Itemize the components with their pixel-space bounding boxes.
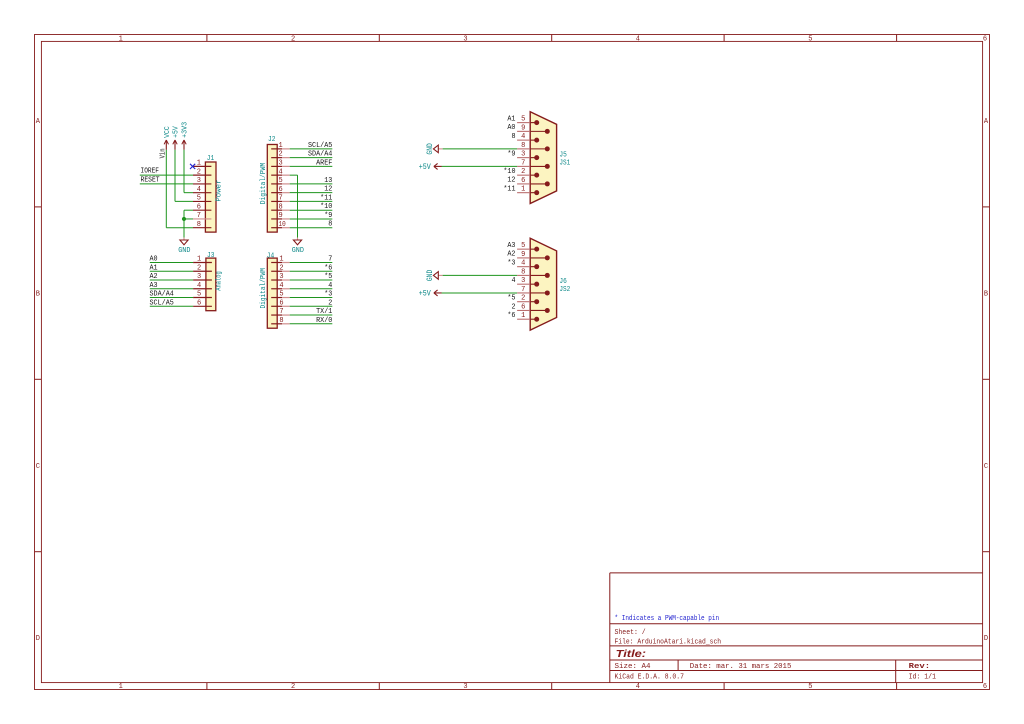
svg-text:RESET: RESET — [141, 176, 160, 184]
junction on J1 pin 7 net — [182, 217, 186, 221]
ground symbol GND below J2 — [292, 238, 304, 255]
svg-text:J1: J1 — [207, 155, 215, 163]
svg-text:1: 1 — [521, 312, 525, 320]
svg-text:Digital/PWM: Digital/PWM — [260, 268, 268, 309]
svg-text:KiCad E.D.A. 8.0.7: KiCad E.D.A. 8.0.7 — [615, 673, 685, 681]
svg-text:GND: GND — [292, 247, 304, 255]
svg-text:Digital/PWM: Digital/PWM — [260, 163, 268, 205]
svg-text:5: 5 — [197, 195, 201, 203]
svg-text:GND: GND — [425, 143, 435, 154]
power symbol +3V3 — [182, 122, 190, 150]
svg-text:4: 4 — [636, 35, 640, 43]
no-connect X on J1 pin 1 — [190, 164, 195, 169]
svg-text:4: 4 — [279, 282, 283, 290]
wire J2 pin 9 — [290, 218, 333, 220]
svg-text:7: 7 — [279, 308, 283, 316]
svg-text:Date: mar. 31 mars 2015: Date: mar. 31 mars 2015 — [690, 663, 792, 671]
svg-text:C: C — [36, 463, 40, 471]
svg-text:1: 1 — [197, 256, 201, 264]
svg-text:6: 6 — [521, 303, 525, 311]
wire VCC/Vin to J1 pin 8 — [166, 150, 193, 228]
svg-text:12: 12 — [507, 177, 515, 185]
wire J4 pin 2 — [290, 270, 333, 272]
svg-text:5: 5 — [197, 291, 201, 299]
svg-text:J3: J3 — [207, 252, 215, 260]
svg-text:*9: *9 — [507, 150, 515, 158]
svg-text:D: D — [984, 635, 988, 643]
svg-text:8: 8 — [279, 317, 283, 325]
svg-text:6: 6 — [983, 683, 987, 691]
svg-text:2: 2 — [279, 264, 283, 272]
svg-text:3: 3 — [521, 277, 525, 285]
svg-text:1: 1 — [119, 683, 123, 691]
svg-text:4: 4 — [521, 260, 525, 268]
J6 pin numbers — [521, 242, 525, 320]
svg-text:1: 1 — [279, 142, 283, 150]
connector J2 — [267, 144, 289, 232]
svg-text:A1: A1 — [507, 115, 515, 123]
wire IOREF to J1 pin 2 — [140, 174, 193, 176]
wire J2 pin 6 — [290, 192, 333, 194]
svg-text:10: 10 — [279, 221, 286, 229]
svg-text:*3: *3 — [324, 291, 332, 299]
svg-text:8: 8 — [279, 203, 283, 211]
svg-text:*6: *6 — [324, 264, 332, 272]
svg-text:3: 3 — [279, 160, 283, 168]
svg-text:6: 6 — [983, 35, 987, 43]
wire J1 pin 6 to GND node — [184, 210, 193, 219]
svg-text:2: 2 — [328, 299, 332, 307]
J4 pin numbers — [279, 256, 283, 325]
svg-text:5: 5 — [279, 291, 283, 299]
svg-text:9: 9 — [279, 212, 283, 220]
svg-text:3: 3 — [279, 273, 283, 281]
svg-text:8: 8 — [521, 268, 525, 276]
svg-text:B: B — [36, 291, 40, 299]
J3 pin numbers — [197, 256, 201, 308]
wire GND to J6 — [443, 274, 517, 276]
svg-text:J4: J4 — [267, 253, 275, 261]
connector J1 — [193, 162, 216, 232]
svg-text:5: 5 — [521, 116, 525, 124]
svg-text:1: 1 — [119, 35, 123, 43]
svg-text:12: 12 — [324, 186, 332, 194]
svg-text:+3V3: +3V3 — [182, 122, 190, 138]
wire J2 pin 3 — [290, 165, 333, 167]
svg-text:5: 5 — [808, 35, 812, 43]
svg-text:Title:: Title: — [616, 649, 647, 660]
svg-text:JS2: JS2 — [559, 286, 570, 294]
svg-text:File: ArduinoAtari.kicad_sch: File: ArduinoAtari.kicad_sch — [615, 639, 722, 647]
svg-text:1: 1 — [521, 186, 525, 194]
svg-text:4: 4 — [511, 277, 515, 285]
svg-text:*11: *11 — [503, 185, 516, 193]
svg-text:8: 8 — [521, 142, 525, 150]
global label GND at J6 — [425, 270, 443, 281]
svg-text:A0: A0 — [507, 124, 515, 132]
svg-text:3: 3 — [463, 683, 467, 691]
svg-text:*10: *10 — [320, 203, 333, 211]
svg-text:2: 2 — [521, 168, 525, 176]
connector J4 — [267, 258, 289, 328]
power symbol +5V — [173, 126, 181, 150]
wire SCL/A5 to J3 pin 6 — [150, 305, 193, 307]
svg-text:4: 4 — [197, 282, 201, 290]
power symbol +5V at J6 — [419, 288, 442, 298]
svg-text:13: 13 — [324, 177, 332, 185]
svg-text:9: 9 — [521, 251, 525, 259]
wire A0 to J3 pin 1 — [150, 262, 193, 264]
svg-text:6: 6 — [197, 299, 201, 307]
svg-text:4: 4 — [521, 133, 525, 141]
svg-text:Analog: Analog — [216, 271, 224, 291]
title block — [610, 573, 983, 683]
wire A1 to J3 pin 2 — [150, 270, 193, 272]
svg-text:JS1: JS1 — [559, 160, 570, 168]
wire A3 to J3 pin 4 — [150, 288, 193, 290]
svg-text:4: 4 — [197, 186, 201, 194]
svg-text:3: 3 — [521, 151, 525, 159]
svg-text:7: 7 — [197, 212, 201, 220]
svg-text:AREF: AREF — [316, 159, 333, 167]
svg-text:2: 2 — [291, 35, 295, 43]
svg-text:2: 2 — [521, 295, 525, 303]
svg-text:B: B — [984, 291, 988, 299]
svg-text:8: 8 — [328, 221, 332, 229]
svg-text:3: 3 — [197, 177, 201, 185]
wire GND to J5 — [443, 148, 517, 150]
svg-text:Sheet: /: Sheet: / — [615, 629, 647, 637]
svg-text:TX/1: TX/1 — [316, 308, 333, 316]
svg-text:2: 2 — [197, 264, 201, 272]
svg-text:A2: A2 — [507, 251, 515, 259]
svg-text:7: 7 — [328, 256, 332, 264]
svg-text:J5: J5 — [559, 151, 567, 159]
svg-text:5: 5 — [521, 242, 525, 250]
wire +5V to J1 pin 5 — [175, 150, 193, 202]
svg-text:A3: A3 — [507, 242, 515, 250]
svg-text:+5V: +5V — [173, 126, 181, 138]
svg-text:6: 6 — [197, 203, 201, 211]
svg-text:GND: GND — [178, 247, 190, 255]
wire +3V3 to J1 pin 4 — [184, 150, 193, 193]
svg-text:7: 7 — [521, 159, 525, 167]
wire J2 pin 2 — [290, 157, 333, 159]
wire junction down to GND — [183, 219, 185, 238]
svg-text:8: 8 — [511, 133, 515, 141]
svg-text:5: 5 — [808, 683, 812, 691]
svg-text:*5: *5 — [507, 295, 515, 303]
wire J4 pin 7 — [290, 314, 333, 316]
svg-text:4: 4 — [636, 683, 640, 691]
wire J2 pin 8 — [290, 209, 333, 211]
wire J4 pin 1 — [290, 262, 333, 264]
connector J5 (JS1) — [517, 112, 557, 204]
power symbol +5V at J5 — [419, 162, 442, 172]
svg-text:RX/0: RX/0 — [316, 317, 333, 325]
wire J4 pin 6 — [290, 305, 333, 307]
connector J6 (JS2) — [517, 238, 557, 330]
svg-text:7: 7 — [521, 286, 525, 294]
svg-text:3: 3 — [197, 273, 201, 281]
wire RESET to J1 pin 3 — [140, 183, 193, 185]
svg-text:J2: J2 — [268, 136, 276, 144]
svg-text:IOREF: IOREF — [141, 168, 160, 176]
svg-text:*11: *11 — [320, 194, 333, 202]
svg-text:8: 8 — [197, 221, 201, 229]
svg-text:2: 2 — [279, 151, 283, 159]
wire A2 to J3 pin 3 — [150, 279, 193, 281]
wire SDA/A4 to J3 pin 5 — [150, 297, 193, 299]
svg-text:*3: *3 — [507, 259, 515, 267]
svg-text:* Indicates a PWM-capable pin: * Indicates a PWM-capable pin — [615, 615, 720, 623]
svg-text:GND: GND — [425, 270, 435, 281]
wire junction to J1 pin 7 — [184, 218, 193, 220]
svg-text:Size: A4: Size: A4 — [615, 663, 651, 671]
svg-text:*6: *6 — [507, 312, 515, 320]
svg-text:9: 9 — [521, 124, 525, 132]
ground symbol GND below J1 — [178, 238, 190, 255]
wire J2 pin 7 — [290, 200, 333, 202]
svg-text:1: 1 — [279, 256, 283, 264]
wire J2 pin 5 — [290, 183, 333, 185]
wire J4 pin 3 — [290, 279, 333, 281]
svg-text:6: 6 — [521, 177, 525, 185]
wire J2 pin 1 — [290, 148, 333, 150]
connector J3 — [193, 258, 216, 311]
svg-text:+5V: +5V — [419, 162, 431, 172]
svg-text:SDA/A4: SDA/A4 — [308, 151, 333, 159]
svg-text:7: 7 — [279, 195, 283, 203]
J1 pin numbers — [197, 160, 201, 229]
svg-text:Id: 1/1: Id: 1/1 — [909, 673, 937, 681]
svg-text:C: C — [984, 463, 988, 471]
wire +5V to J5 — [442, 165, 518, 167]
svg-text:+5V: +5V — [419, 288, 431, 298]
wire J2 pin 4 to GND — [290, 175, 298, 237]
power symbol VCC — [164, 126, 172, 150]
svg-text:1: 1 — [197, 160, 201, 168]
svg-text:6: 6 — [279, 186, 283, 194]
wire +5V to J6 — [442, 292, 518, 294]
svg-text:2: 2 — [511, 303, 515, 311]
wire J2 pin 10 — [290, 227, 333, 229]
svg-text:2: 2 — [197, 168, 201, 176]
svg-text:6: 6 — [279, 299, 283, 307]
svg-text:VCC: VCC — [164, 126, 172, 138]
svg-text:Power: Power — [215, 180, 223, 202]
svg-text:SCL/A5: SCL/A5 — [308, 142, 333, 150]
J5 pin numbers — [521, 116, 525, 194]
J2 pin numbers — [279, 142, 286, 229]
svg-text:J6: J6 — [559, 278, 567, 286]
svg-text:*5: *5 — [324, 273, 332, 281]
svg-text:5: 5 — [279, 177, 283, 185]
svg-text:4: 4 — [328, 282, 332, 290]
svg-text:*10: *10 — [503, 168, 516, 176]
svg-text:D: D — [36, 635, 40, 643]
svg-text:4: 4 — [279, 168, 283, 176]
svg-text:2: 2 — [291, 683, 295, 691]
svg-text:*9: *9 — [324, 212, 332, 220]
svg-text:3: 3 — [463, 35, 467, 43]
wire J4 pin 5 — [290, 297, 333, 299]
wire J4 pin 8 — [290, 323, 333, 325]
wire J4 pin 4 — [290, 288, 333, 290]
svg-text:Rev:: Rev: — [909, 663, 931, 671]
global label GND at J5 — [425, 143, 443, 154]
